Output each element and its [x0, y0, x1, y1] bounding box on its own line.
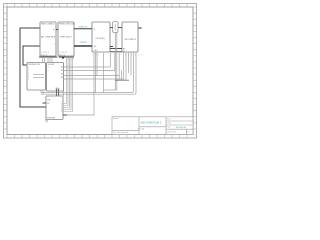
wire Y1 to U4: [118, 27, 122, 29]
sheet outer border: [4, 4, 197, 139]
wire U2 pin to U8 pin5: [63, 56, 73, 112]
wire Y1 pin down a: [114, 32, 116, 90]
wire U6 A2 to node: [64, 53, 120, 76]
wire drop to bar 2: [121, 70, 123, 80]
wire U1 to U5 pin b: [44, 57, 46, 63]
sheet inner border: [7, 7, 193, 135]
wire U3 pin to band: [95, 52, 97, 93]
wire U2 pin to U8 pin1: [63, 56, 67, 104]
wire U3 to U4 serial lower: [110, 51, 122, 53]
svg-text:PWR3V: PWR3V: [80, 42, 88, 44]
bus wire under U1 U2 left segment: [39, 56, 57, 58]
svg-text:1 2 3 4 5 6: 1 2 3 4 5 6: [125, 54, 144, 56]
svg-text:1 2 3: 1 2 3: [93, 54, 100, 56]
IC U5 (regulator) box F: [27, 63, 46, 91]
svg-text:P1: P1: [53, 30, 55, 32]
wire U6 A3 to U4 pin: [64, 52, 124, 79]
component Y1 (small series part): [113, 22, 118, 33]
svg-text:Sheet: /: Sheet: /: [113, 117, 120, 120]
svg-text:10-03-2016: 10-03-2016: [176, 127, 187, 129]
wire horizontal band lower: [41, 93, 134, 95]
wire thick net lower: U1 left pin y46 to left and down to U6: [23, 46, 40, 65]
svg-text:Size: A3: Size: A3: [138, 127, 144, 130]
component R pack dark pin b: [58, 89, 60, 96]
wire thick net PWR upper: U1 left pin to far left and down to U8: [20, 28, 46, 107]
wire drop to bar 4: [125, 70, 127, 80]
svg-text:MB1 CONN 1: MB1 CONN 1: [42, 24, 56, 26]
wire U2 pin to U8 pin4: [63, 56, 71, 110]
no-connect tick at U4 stub: [140, 27, 142, 29]
svg-text:CPU A (P): CPU A (P): [95, 37, 105, 40]
wire horizontal band upper: [41, 92, 132, 94]
svg-text:Rev: 2: Rev: 2: [167, 118, 172, 120]
wire drop to bar 3: [123, 79, 125, 80]
component R pack dark pin a: [56, 89, 58, 96]
IC U3 (cpu) box C: [92, 22, 110, 52]
IC U8 (power mgmt) box H: [46, 96, 63, 120]
IC U2 (power conv) box B: [58, 22, 74, 56]
wire drop to bar 1: [118, 76, 120, 81]
power flag below U8: [45, 120, 48, 123]
frame grid ticks top: [7, 4, 187, 8]
wire U4 pin down 3: [130, 52, 132, 76]
wire U2 pin to U8 pin3: [63, 56, 70, 108]
IC U4 (mcu board) box E: [122, 22, 138, 53]
wire U3 to U4 serial upper: [110, 48, 122, 50]
svg-text:File: abc_pwm.sch: File: abc_pwm.sch: [113, 132, 128, 134]
wire U5 pin to band b: [42, 90, 44, 94]
frame grid ticks right: [193, 7, 197, 129]
wire U3 pin across joins A2 net: [96, 52, 98, 76]
connector bar node: [115, 79, 129, 81]
wire U4 pin down 1: [125, 52, 127, 70]
wire U3 to Y1: [110, 27, 113, 29]
svg-text:ALL-PWR-IN A: ALL-PWR-IN A: [41, 36, 55, 39]
wire U5 pin to band a: [40, 90, 42, 93]
svg-text:PWR-5V: PWR-5V: [79, 27, 88, 29]
wire Y1 pin down b: [116, 32, 118, 90]
svg-text:RS REG 230: RS REG 230: [28, 64, 40, 66]
svg-text:2: 2: [54, 44, 55, 46]
wire U8 right dark pin: [63, 114, 67, 116]
bus wire under U1 U2 right segment: [59, 56, 74, 58]
frame grid ticks bottom: [7, 135, 187, 139]
wire U1 to U5 pin a: [42, 57, 44, 63]
IC U6 (io expander) box G: [47, 63, 64, 92]
wire U1 to U2: [56, 29, 58, 31]
wire U6 right bottom pin to U8: [63, 91, 65, 96]
svg-text:Id: 1: Id: 1: [187, 131, 190, 133]
title block: [112, 117, 193, 135]
svg-text:1 2 3 4 5 6: 1 2 3 4 5 6: [41, 52, 49, 54]
wire U2 to U3 lower thick: [74, 45, 92, 47]
wire U2 pin to U8 pin2: [63, 56, 68, 106]
wire U4 pin down 4: [132, 52, 134, 93]
wire link to vertical: [104, 89, 117, 91]
wire U6 A0 to U3: [64, 53, 111, 67]
wire stub U4 right pin: [138, 27, 141, 29]
svg-text:PWR MG: PWR MG: [47, 117, 55, 119]
power arrow junction: [62, 57, 65, 59]
wire U4 pin down 2: [128, 52, 130, 73]
svg-text:MCU BRD 2: MCU BRD 2: [125, 39, 137, 41]
wire stub U3 right pin y46: [110, 46, 113, 48]
svg-text:EN: EN: [47, 103, 49, 105]
IC U1 (power conn) box A: [40, 22, 56, 56]
svg-text:PWRCONV 1 A: PWRCONV 1 A: [59, 23, 74, 26]
svg-text:Comp:: Comp:: [167, 122, 172, 124]
svg-text:ABC PWM PCM 2: ABC PWM PCM 2: [141, 121, 162, 124]
wire U3 pin to U8 long return: [67, 52, 94, 115]
wire bus to U6 pin 2: [49, 57, 51, 63]
wire U3 pin long vertical: [103, 53, 105, 93]
svg-text:RX: RX: [123, 48, 125, 50]
svg-text:IO EXP: IO EXP: [48, 64, 55, 66]
svg-text:PWR SWT 2: PWR SWT 2: [60, 37, 73, 39]
frame grid ticks left: [4, 7, 8, 129]
wire stub U8 left pin: [43, 102, 47, 104]
wire bus to U6 pin 1: [47, 57, 49, 63]
svg-text:1 2 3 4 5 6: 1 2 3 4 5 6: [59, 52, 67, 54]
wire U6 A1 to node: [64, 53, 115, 70]
svg-text:1 2 3 4: 1 2 3 4: [66, 59, 75, 61]
wire U4 pin down right: [134, 52, 136, 94]
wire bus to U6 pin 3: [51, 57, 53, 63]
wire U2 to U3 upper: [74, 28, 92, 30]
svg-text:1 2: 1 2: [56, 94, 60, 96]
